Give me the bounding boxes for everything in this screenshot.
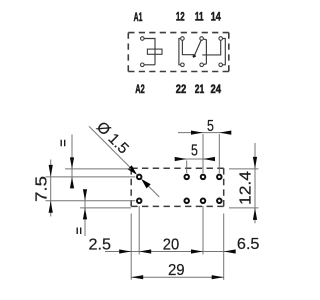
wire coil to A2 [144, 64, 155, 66]
ext line rect-bottom left [80, 207, 131, 209]
schematic dashed enclosure [128, 33, 229, 72]
svg-text:21: 21 [195, 82, 205, 96]
svg-text:2.5: 2.5 [89, 236, 112, 253]
ext line rect-top right [229, 168, 259, 170]
dim line 29 [131, 276, 224, 278]
arrow 29 right [212, 275, 224, 279]
svg-text:29: 29 [168, 262, 185, 279]
coil box [147, 49, 162, 54]
wire through coil [154, 49, 156, 65]
arrow 12.4 bottom [253, 208, 257, 220]
svg-text:6.5: 6.5 [237, 236, 260, 253]
arrow 7.5 bottom [49, 201, 53, 213]
wire joining 11-21 [203, 39, 206, 65]
arrow at hole lower-right [141, 179, 151, 189]
svg-text:A2: A2 [135, 82, 145, 96]
arrow 2.5 left [119, 249, 131, 253]
ext line rect-top left [65, 168, 131, 170]
svg-text:11: 11 [195, 10, 204, 24]
dim line 7.5 [50, 160, 52, 217]
contact pin 14 [219, 37, 223, 41]
contact pin 21 [200, 63, 204, 67]
ext line botrow left [46, 200, 136, 202]
hole A2 [137, 199, 142, 204]
contact pin 12 [181, 37, 185, 41]
arrow 5b left [175, 157, 187, 161]
ext line col2 up [202, 134, 204, 173]
ext line col1 up [186, 161, 188, 174]
arrow at hole upper-left [128, 165, 138, 175]
svg-text:A1: A1 [134, 10, 143, 24]
svg-text:7.5: 7.5 [33, 176, 50, 202]
dim line 2.5/20/6.5 [105, 251, 235, 253]
lever of contact 11 [194, 40, 201, 56]
wire A1 to coil [144, 39, 155, 50]
wire pin14 NO stub [202, 40, 220, 55]
contact pin 22 [181, 63, 185, 67]
svg-text:24: 24 [210, 82, 221, 96]
ext line rect-bottom right [229, 207, 259, 209]
arrow 20 left [139, 249, 151, 253]
arrow 12.4 top [253, 157, 257, 169]
ext line rect-left down [130, 214, 132, 280]
svg-text:12.4: 12.4 [238, 170, 255, 205]
contact pin 24 [219, 63, 223, 67]
hole col2 bottom [201, 199, 206, 204]
hole col2 top [201, 175, 206, 180]
wire pin12 NC stub [182, 40, 194, 54]
ext line coil-col down [138, 206, 140, 255]
ext line rect-right down [223, 214, 225, 280]
arrow 29 left [131, 275, 143, 279]
svg-text:12: 12 [176, 10, 185, 24]
ext line toprow left [46, 176, 136, 178]
arrow 6.5 right [224, 249, 236, 253]
ext line col3 up [218, 134, 220, 173]
arrow 5b right [203, 157, 215, 161]
arrow 5top left [191, 131, 203, 135]
svg-text:5: 5 [191, 142, 198, 159]
arrow eq-top lower [70, 177, 74, 189]
arrow eq-bot lower [83, 208, 87, 220]
arrow 20 right [191, 249, 203, 253]
svg-text:22: 22 [176, 82, 187, 96]
bracket joining 14-24 [223, 39, 226, 65]
arrow eq-bot upper [83, 189, 87, 201]
svg-text:5: 5 [207, 118, 214, 135]
arrow eq-top upper [70, 157, 74, 169]
svg-text:20: 20 [163, 236, 179, 253]
lever foot [193, 56, 196, 57]
hole col3 top [217, 175, 222, 180]
coil pin A1 terminal [141, 37, 145, 41]
dim line 5 top [178, 132, 230, 134]
hole col3 bottom [217, 199, 222, 204]
hole col1 bottom [184, 199, 189, 204]
hole col1 top [184, 175, 189, 180]
svg-text:=: = [71, 226, 86, 234]
ext line col2 down [202, 206, 204, 255]
dim line 12.4 [254, 143, 256, 223]
relay outline dashed rect [131, 168, 224, 206]
bracket joining 12-22 [179, 39, 180, 65]
dim line equals bottom [84, 192, 86, 236]
svg-text:=: = [56, 139, 71, 147]
leader tail below hole [143, 181, 159, 197]
contact pin 11 [200, 37, 204, 41]
dim line 5 second [177, 158, 212, 160]
coil pin A2 terminal [141, 63, 145, 67]
svg-text:14: 14 [211, 10, 221, 24]
arrow 7.5 top [49, 165, 53, 177]
leader line for hole diameter [89, 126, 135, 172]
arrow 5top right [219, 131, 231, 135]
dim line equals top [71, 135, 73, 186]
hole A1 [137, 175, 142, 180]
